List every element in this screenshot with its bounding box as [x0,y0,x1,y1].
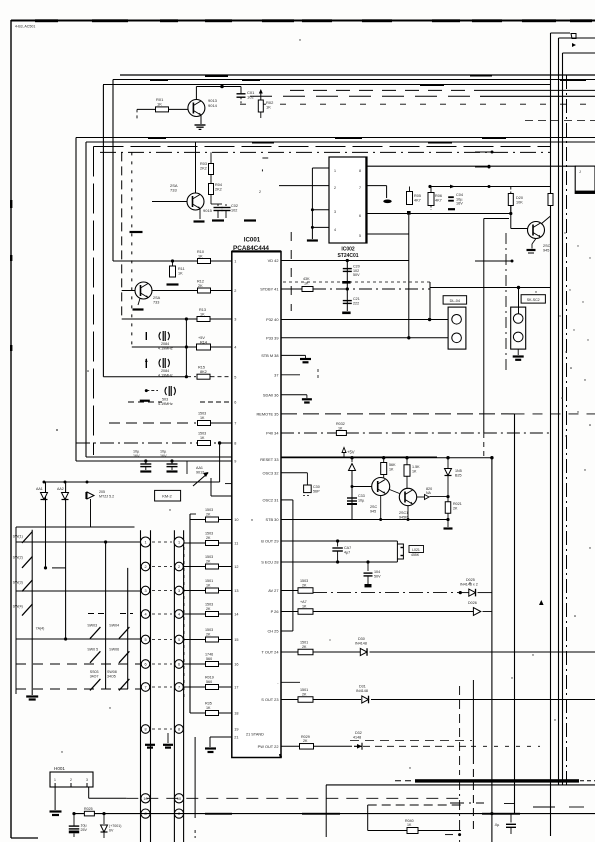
wire pin41 STDBY [281,288,302,290]
wire pin38 STBM [281,354,306,356]
wire pin27 AV [281,590,298,592]
wire IC002 pin1 [312,167,329,169]
svg-text:21 STAND: 21 STAND [246,733,264,737]
resistor R026 [298,609,313,615]
svg-text:2K: 2K [302,692,307,696]
bottom-right box bottom [368,830,461,832]
wire matrix row 664 dashed [16,663,141,665]
svg-text:STDBY 41: STDBY 41 [260,287,278,292]
svg-text:SW04: SW04 [109,624,119,628]
svg-text:1K: 1K [200,312,205,316]
zener Z002 [447,458,449,468]
wire net y287.5 to SK [430,287,551,289]
scan marks row813 [205,813,232,815]
svg-text:C02: C02 [231,204,238,208]
svg-text:3: 3 [144,589,146,593]
wire pin34 P40 dash-dot [281,432,337,434]
wire shield left v86 [85,142,87,457]
capacitor C004 [450,197,452,201]
wire v195.5 from bus [195,142,197,193]
svg-text:6: 6 [359,214,361,218]
wire IC002 pin5 [367,233,409,235]
svg-text:15: 15 [234,638,238,642]
svg-text:18: 18 [234,712,238,716]
resistor R001 10K [156,107,169,112]
wire matrix row 542 [16,541,141,543]
capacitor C011 [367,562,369,571]
svg-text:SW03: SW03 [87,624,97,628]
svg-text:16V: 16V [160,454,167,458]
ground R011 [167,283,179,285]
capacitor C007 [343,268,352,270]
wire feeder v483.8 [483,219,485,434]
connector DL01 body [448,307,466,349]
connector pin circles row 590.5 [141,586,150,595]
wire ladder dashed v184 [183,540,185,700]
svg-text:2: 2 [334,186,336,190]
connector CN1 column lines [140,530,142,842]
resistor R008 vertical [548,194,553,206]
diode D005 open [473,608,480,616]
svg-text:B25: B25 [455,473,462,477]
wire pin37 stub [281,374,300,376]
transistor Q001 9014 [188,100,205,117]
svg-text:1K: 1K [407,823,412,827]
wire dash y803 [450,802,484,804]
wire bus y79.5 [113,79,595,81]
svg-text:7: 7 [359,186,361,190]
noise specks right [564,232,565,233]
wire pin32 OSC3 [281,472,307,474]
svg-text:J: J [579,170,581,174]
wire stub y152 [475,151,492,153]
resonator H001 box [50,772,93,787]
wire row7 pin7 [109,422,196,424]
wire pin36 SDA0 [281,394,307,396]
svg-text:9014: 9014 [208,103,218,108]
svg-text:733: 733 [170,188,177,193]
resistor R012 [198,288,211,293]
resistor R031 [407,828,418,834]
svg-text:B OUT 29: B OUT 29 [261,539,278,544]
svg-text:SW(4): SW(4) [13,605,23,609]
svg-text:7A(4): 7A(4) [36,627,45,631]
svg-text:9: 9 [234,460,236,464]
svg-text:S ECU 28: S ECU 28 [261,560,278,565]
wire row6 dashed [128,401,162,403]
svg-text:P32 40: P32 40 [266,317,279,322]
svg-text:AA1: AA1 [36,487,43,491]
svg-text:560: 560 [206,657,212,661]
connector DL01 pin1 [452,315,462,325]
svg-text:2K: 2K [198,284,203,288]
svg-text:R06: R06 [435,194,442,198]
svg-text:STB M 38: STB M 38 [261,353,278,358]
svg-text:37: 37 [274,372,278,377]
wire right bus v566.5 dash-dot [566,75,568,785]
wire bus y96 dashed [250,95,480,97]
node junction y86.5 [220,85,224,89]
svg-text:8: 8 [359,169,361,173]
svg-text:2K: 2K [206,559,211,563]
ground Q001 emitter [200,115,202,124]
svg-text:25V: 25V [81,828,88,832]
wire shield left v76 [75,138,77,462]
wire thick band y781 [415,779,579,782]
svg-text:6: 6 [144,663,146,667]
wire pin6 stub dashed [200,401,232,403]
wire dash y282 [283,281,430,283]
ground IC002 [307,239,318,241]
svg-text:56P: 56P [313,489,320,493]
resistor R005 vertical [407,192,413,205]
wire v514.5 [514,414,516,814]
resistor R021 [336,431,346,436]
wire Q003 base [122,290,135,292]
wire matrix row 568 stub [52,567,66,569]
svg-text:16V: 16V [133,454,140,458]
wire pin42 VD [281,260,409,262]
wire matrix col 127.7 [127,568,129,689]
wire shield bottom y457 [86,456,437,458]
wire [409,187,411,192]
wire pin23 S.OUT [281,699,298,701]
resistor R017 [198,441,211,446]
filter CF001 [396,541,398,562]
wire IC002 pin3 [312,209,329,211]
svg-text:SDA0 36: SDA0 36 [263,392,279,397]
svg-text:.0µ: .0µ [494,823,500,827]
transistor Q006 [399,488,416,505]
transistor Q004 9015 [510,206,512,229]
svg-text:1K: 1K [198,254,203,258]
wire v347 decoupling [346,261,348,312]
capacitor C008 [343,300,352,302]
wire Q006 emitter [407,506,409,520]
wire Q005 emitter [380,496,382,520]
svg-text:SW(3): SW(3) [13,581,23,585]
svg-text:1K: 1K [338,426,343,430]
svg-text:8: 8 [234,442,236,446]
svg-text:2: 2 [70,778,72,782]
wire v219.6 [219,443,221,482]
switch SW005 [90,627,100,639]
wire matrix row 689 dashed [16,688,141,690]
resistor R023 vertical [404,465,410,477]
svg-text:8: 8 [144,728,146,732]
svg-text:2: 2 [234,289,236,293]
wire v186 xtal [185,319,187,377]
connector DL01 pin2 [452,333,462,343]
wire pin31 stub [281,499,293,501]
svg-text:SW08: SW08 [107,670,117,674]
page left border [10,20,12,838]
svg-text:102: 102 [231,209,237,213]
node [72,812,75,815]
ground col stems [150,733,152,743]
resistor R006 vertical [428,193,434,206]
wire Q005 base [352,486,372,488]
svg-text:2K: 2K [302,645,307,649]
svg-text:REMOTE 35: REMOTE 35 [256,412,278,417]
svg-text:7: 7 [178,686,180,690]
wire dash y120 [525,120,595,122]
svg-text:4148: 4148 [353,735,361,739]
svg-text:OSC2 31: OSC2 31 [262,498,278,503]
resistor R002 vertical [258,100,263,112]
svg-text:OSC3 32: OSC3 32 [262,470,278,475]
wire H001 pin3 [88,787,90,798]
svg-text:2SC: 2SC [543,244,551,248]
wire Q006 collector out [417,496,424,498]
wire ladder feed v190 [189,514,191,713]
svg-text:CH 25: CH 25 [267,629,278,634]
svg-text:4K7: 4K7 [414,199,421,203]
diode D003 triangle [351,458,353,462]
svg-text:222: 222 [353,301,359,305]
svg-text:16: 16 [234,663,238,667]
wire right bus v550.5 [550,33,552,836]
svg-text:7: 7 [234,422,236,426]
switch SW006 [119,627,129,639]
transistor Q005 [372,478,390,496]
wire dash y807 [533,806,555,808]
svg-text:19: 19 [234,728,238,732]
wire row 813 solid [74,813,595,815]
svg-text:1: 1 [178,541,180,545]
wire dashdot v506 [505,233,507,370]
capacitor C010 [337,541,339,547]
wire pin33 RESET rail [281,457,492,459]
resistor ladder R5 [206,637,219,642]
switch SW003 [22,580,32,592]
svg-text:21: 21 [234,736,238,740]
node [407,211,411,215]
diode D006 [360,648,367,655]
svg-text:13: 13 [234,589,238,593]
transistor Q003 [135,282,152,299]
wire matrix col 105.6 [105,542,107,689]
wire v459.6 dashed [459,686,461,775]
wire matrix col 65.6 [65,482,67,639]
svg-text:SW(2): SW(2) [13,556,23,560]
svg-text:6: 6 [234,401,236,405]
connector pin circles row 639.5 [141,635,150,644]
resistor R003 vertical [209,164,214,175]
scan marks bus lines [148,137,166,139]
wire v459.6 lower dashdot [459,780,461,842]
label box KM [155,490,181,501]
diode AA1 switch sense [186,461,188,474]
transistor Q002 [187,193,204,210]
wire row 798 dashed [126,797,460,799]
wire elbow y53 [563,52,595,54]
wire row4 pin4 [132,346,232,348]
svg-text:11: 11 [234,542,238,546]
svg-text:10: 10 [177,797,181,801]
svg-text:1K: 1K [178,271,183,275]
ground X003 [140,400,150,402]
wire pin30 rail [281,519,448,521]
resistor ladder R1 [206,541,219,546]
wire bus y84.5 [103,84,551,86]
resistor ladder R3 [206,588,219,593]
wire matrix col 45.5 [45,482,47,568]
svg-text:10K: 10K [516,201,523,205]
resistor R020 [302,287,313,292]
wire bus y152.4 dash-dot [100,151,550,153]
switch SW008 [119,651,129,663]
svg-text:1K: 1K [302,604,307,608]
svg-text:1: 1 [54,778,56,782]
svg-text:945: 945 [370,509,376,513]
resistor ladder R4 [206,612,219,617]
ground C004 [448,208,455,210]
resonator X002 [159,359,169,367]
wire feeder elbow y218 [484,218,509,220]
resistor R024 vertical [445,502,451,514]
switch SW007 [90,651,100,663]
wire net y166 [367,165,576,167]
svg-text:2K: 2K [302,583,307,587]
svg-text:10: 10 [143,797,147,801]
wire tick x262 [262,157,268,159]
resistor R011 vertical [170,266,176,277]
svg-text:1K: 1K [412,469,417,473]
wire elbow v190 top [190,513,196,515]
connector pin circles row 566.5 [141,562,150,571]
diode D008 arrow [354,743,362,750]
wire pin stub 682 [281,681,300,683]
svg-text:4: 4 [178,613,180,617]
svg-text:3: 3 [334,210,336,214]
svg-text:NA: NA [426,491,432,495]
ground C005 [140,470,151,472]
resistor ladder R2 [206,564,219,569]
svg-text:3: 3 [86,778,88,782]
wire elbow pin row 496 [210,478,212,496]
wire pin35 REMOTE [281,413,515,415]
wire bus y142 [86,141,595,143]
wire dash x318 segs [317,369,319,381]
svg-text:PW OUT 22: PW OUT 22 [258,744,279,749]
wire row9 pin9 [76,460,232,462]
connector SK01 body [511,307,526,349]
wire base feed Q001 [137,108,188,110]
wire IC002 pin2 long [279,185,329,187]
svg-text:5: 5 [234,375,236,379]
resistor R029 [300,744,314,750]
connector SK01 label [521,295,545,303]
connector pin circles row 664 [141,660,150,669]
capacitor tantalum blob [383,200,391,204]
resistor R028 [298,697,313,703]
wire matrix row 591 [16,590,141,592]
svg-text:PCA84C444: PCA84C444 [233,245,269,252]
svg-text:16V: 16V [456,202,463,206]
svg-text:5: 5 [359,234,361,238]
svg-text:H001: H001 [54,766,65,771]
ground pin21 [205,747,216,749]
connector pin circles row 798 [141,794,150,803]
svg-text:9012: 9012 [196,470,204,474]
svg-text:102: 102 [247,95,254,100]
svg-text:2K: 2K [206,607,211,611]
svg-text:+5V: +5V [347,450,355,455]
svg-text:34O5: 34O5 [107,675,116,679]
wire pin26 [281,611,298,613]
switch SW004 [22,604,32,616]
svg-text:DL-04: DL-04 [450,299,460,303]
wire bus y137.5 [76,137,595,139]
svg-text:P33 39: P33 39 [266,335,278,340]
node pin41 [346,287,349,290]
svg-text:AA2: AA2 [57,487,64,491]
svg-text:733: 733 [153,300,159,304]
svg-text:9015: 9015 [203,208,213,213]
wire pin25 CH [281,630,293,632]
wire row y740 dashed [350,740,472,742]
ground Q004 [532,239,536,245]
wire pin29 B.OUT [281,540,397,542]
svg-text:R025: R025 [84,807,93,811]
svg-text:IN4148: IN4148 [356,689,368,693]
svg-text:8: 8 [178,728,180,732]
switch SW002 [22,556,32,568]
wire elbow y38 [559,37,595,39]
svg-text:AV 27: AV 27 [268,588,278,593]
connector pin circles row 729 [141,725,150,734]
svg-text:SS03: SS03 [90,670,99,674]
wire v430 [429,282,431,320]
wire net y186.5 [430,186,480,188]
wire row5 pin5 [103,376,188,378]
resistor R022 vertical [381,463,387,475]
switch SW001 [22,532,32,544]
ground Q002 emitter [199,209,201,219]
svg-text:4µ7: 4µ7 [344,550,350,554]
wire pin21 gnd [210,736,232,738]
wire base feed Q002 [152,201,187,203]
svg-text:50V: 50V [353,273,360,277]
ground C006 [167,470,178,472]
svg-text:6V: 6V [109,829,114,833]
svg-text:D026: D026 [468,601,477,605]
svg-text:3: 3 [178,589,180,593]
svg-text:4: 4 [334,228,336,232]
wire right bus v558.5 [558,38,560,785]
svg-text:4-B3, AC501: 4-B3, AC501 [15,25,35,29]
wire collector net y86.5 [195,87,197,100]
wire stub y167 [475,166,489,168]
svg-text:2: 2 [259,190,261,194]
resistor R014 [197,344,211,350]
connector CN2 column lines [173,530,175,842]
zener Z001 MTZJ [87,492,94,499]
wire shield left v113 [112,80,114,262]
svg-text:2K2: 2K2 [200,167,207,171]
svg-text:2K: 2K [303,739,308,743]
svg-text:MTZJ 5.2: MTZJ 5.2 [99,494,114,498]
wire v195 [194,737,196,818]
svg-text:1: 1 [334,169,336,173]
svg-text:C: C [178,812,181,816]
svg-text:KM-2: KM-2 [162,494,172,499]
wire IC002 pin7 stub [367,185,387,187]
wire IC002 pin6 [367,213,511,215]
wire bus y146.5 dashed [94,146,551,148]
resistor ladder R8 [206,711,219,716]
